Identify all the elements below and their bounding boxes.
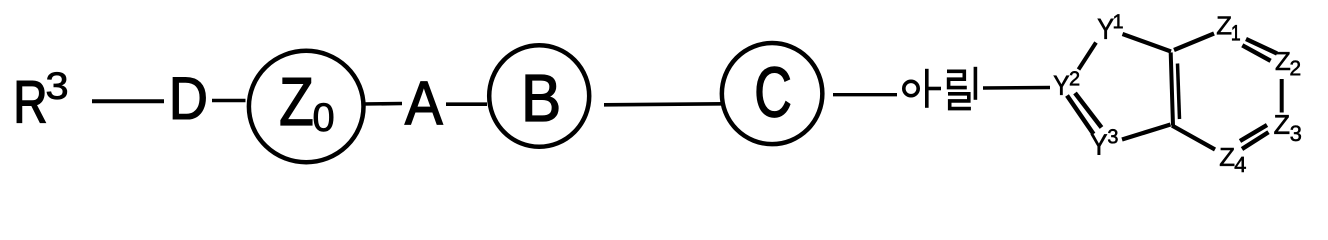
node circle Z0: [249, 51, 364, 163]
node D: [173, 78, 205, 119]
wire bond R3-D: [92, 99, 164, 103]
fusion double bond main line: [1171, 53, 1173, 126]
wire bond Z2-Z3: [1280, 79, 1284, 113]
ring atom Y of Y3: [1091, 134, 1107, 154]
double bond Z1=Z2 line a: [1246, 39, 1277, 54]
label C: [757, 67, 790, 117]
hangul ieung circle of 아: [904, 81, 918, 95]
node A: [405, 82, 443, 124]
substituent label R: [17, 81, 45, 122]
ring atom Z of Z1: [1217, 17, 1231, 35]
node circle C: [722, 43, 823, 144]
hangul vowel i of 릴: [974, 67, 978, 100]
superscript 1 of Y1: [1114, 14, 1123, 28]
superscript 3 of Y3: [1108, 129, 1118, 143]
wire bond fusion bottom-Z4: [1172, 126, 1215, 150]
hangul vowel stem of 아: [925, 69, 929, 108]
ring atom Y of Y2: [1054, 76, 1069, 95]
wire bond A-B: [446, 102, 487, 106]
wire bond D-Z0: [212, 99, 246, 103]
hangul vowel tick of 아: [927, 87, 941, 91]
double bond Y2=Y3 line a: [1067, 96, 1094, 135]
ring atom Z of Z2: [1276, 52, 1290, 70]
subscript 0 of Z0: [314, 103, 333, 131]
wire bond B-C: [604, 104, 723, 105]
wire bond aryl-Y2: [983, 86, 1050, 90]
double bond Y2=Y3 line b: [1075, 93, 1102, 128]
label Z of Z0: [281, 78, 312, 125]
wire bond C-aryl: [833, 93, 897, 96]
ring atom Y of Y1: [1098, 19, 1114, 39]
double bond Z3=Z4 line a: [1240, 125, 1267, 141]
label B: [526, 75, 558, 121]
wire bond Y2-Y1: [1079, 43, 1097, 70]
double bond Z3=Z4 line b: [1242, 132, 1269, 149]
superscript 2 of Y2: [1070, 71, 1079, 85]
subscript 2 of Z2: [1291, 61, 1301, 76]
subscript 1 of Z1: [1232, 25, 1240, 40]
wire bond Y1-fusion top: [1123, 34, 1172, 52]
hangul final rieul of 릴: [948, 94, 971, 109]
wire bond Z0-A: [362, 102, 402, 106]
superscript 3 of R3: [47, 72, 67, 99]
ring atom Z of Z3: [1274, 115, 1289, 134]
wire bond Y3-fusion bottom: [1122, 125, 1171, 140]
double bond Z1=Z2 line b: [1242, 45, 1270, 61]
subscript 4 of Z4: [1235, 157, 1246, 172]
fusion double bond inner line: [1178, 64, 1180, 120]
node circle B: [489, 45, 589, 147]
wire bond fusion top-Z1: [1174, 34, 1214, 51]
hangul initial rieul of 릴: [947, 71, 967, 87]
ring atom Z of Z4: [1220, 148, 1234, 166]
subscript 3 of Z3: [1291, 126, 1301, 142]
